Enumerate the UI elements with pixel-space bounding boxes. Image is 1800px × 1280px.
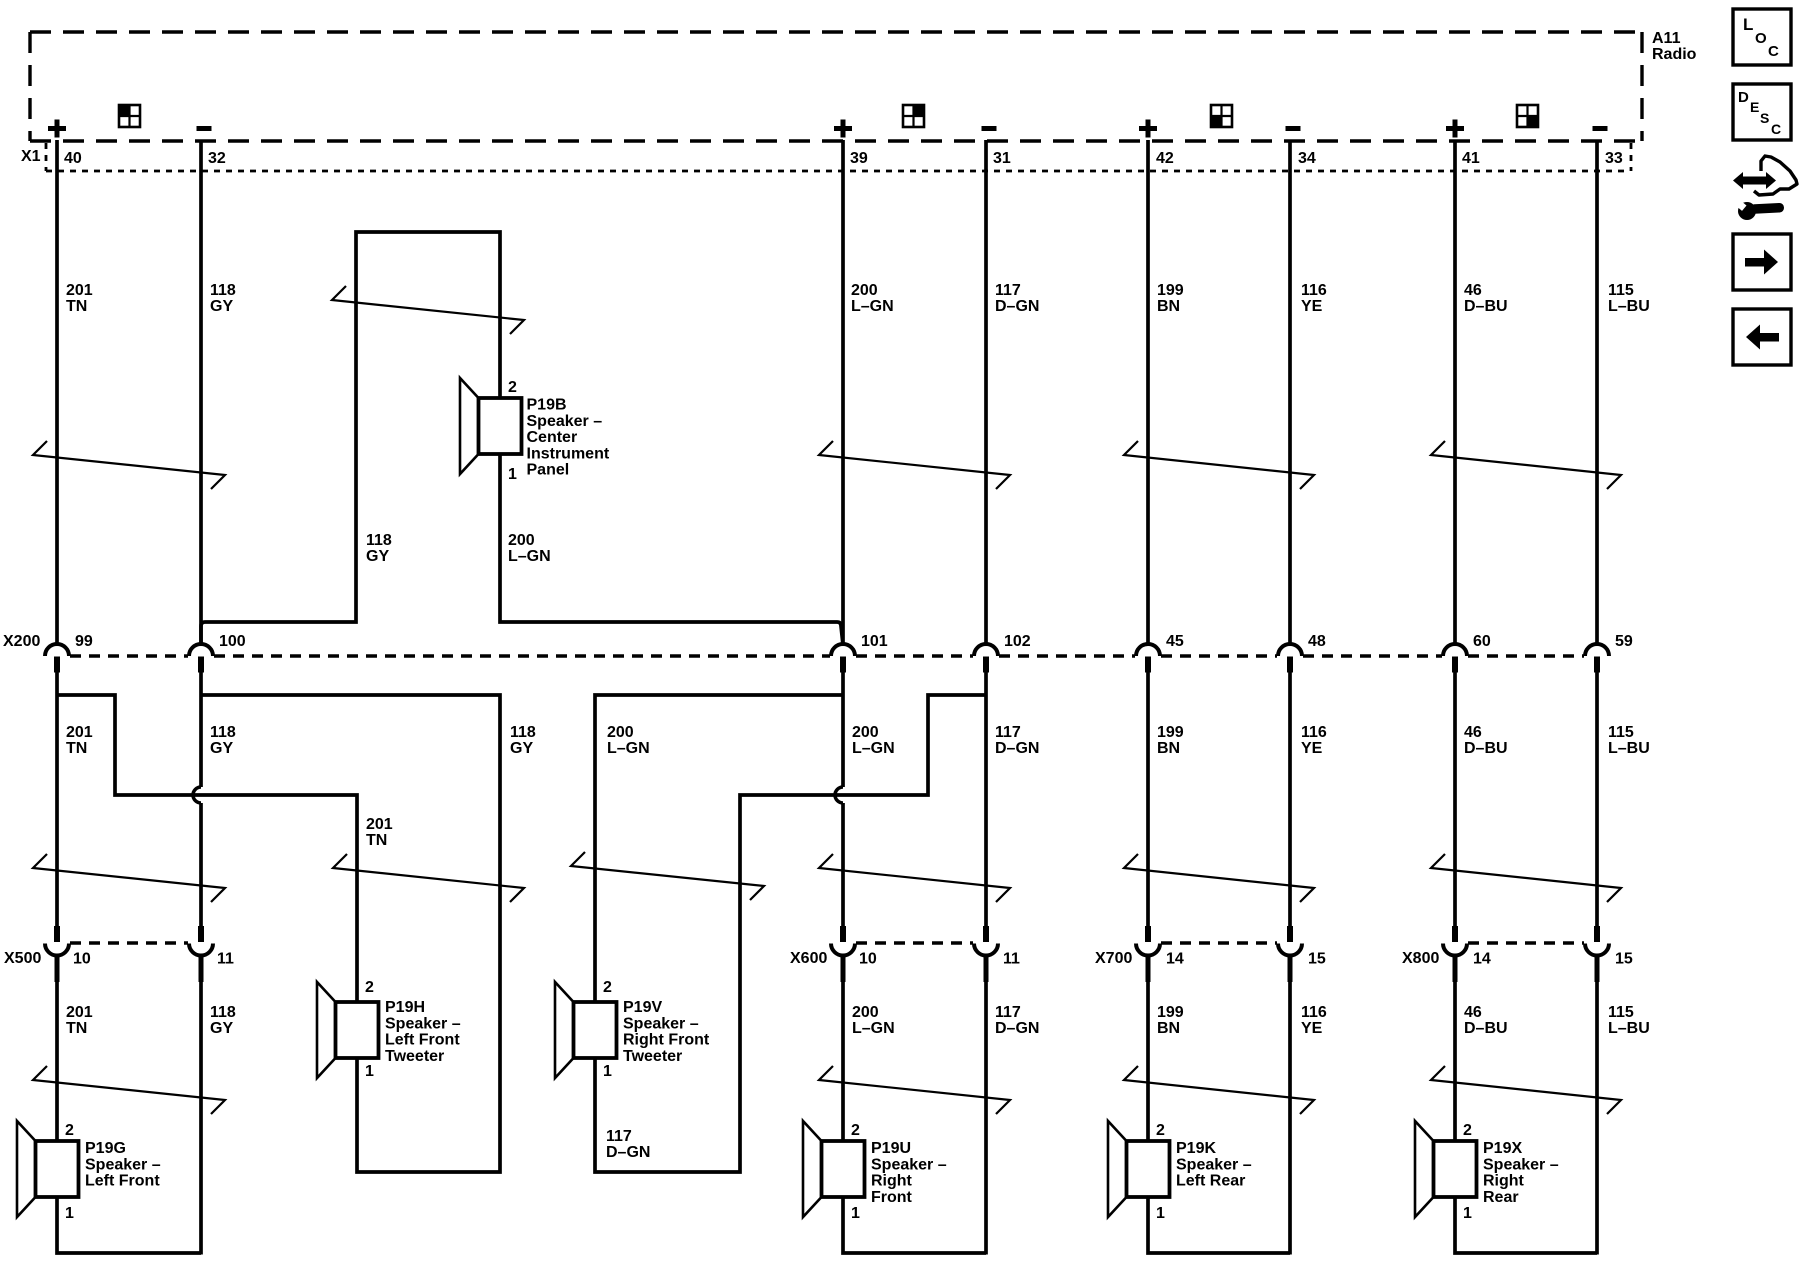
svg-text:Panel: Panel xyxy=(527,462,570,479)
svg-text:116: 116 xyxy=(1301,282,1327,299)
svg-text:GY: GY xyxy=(210,1020,233,1037)
branch wire 200 L-GN to P19V pin 2 xyxy=(595,695,843,1002)
speaker P19V - Right Front Tweeter xyxy=(555,982,574,1078)
svg-text:2: 2 xyxy=(1463,1122,1472,1139)
branch wire 118 GY to P19H pin 1 xyxy=(201,695,500,1172)
twisted pair symbol LR top xyxy=(1124,441,1314,489)
svg-text:33: 33 xyxy=(1605,150,1623,167)
svg-text:118: 118 xyxy=(210,1004,236,1021)
svg-text:X500: X500 xyxy=(4,950,41,967)
P19U pin 1 return wire xyxy=(843,1197,986,1253)
connector X200 dashed line xyxy=(70,654,1584,658)
svg-text:15: 15 xyxy=(1615,951,1633,968)
svg-text:117: 117 xyxy=(995,282,1021,299)
radio A11 dashed outline box xyxy=(30,32,1642,141)
svg-text:1: 1 xyxy=(65,1205,74,1222)
svg-text:L–BU: L–BU xyxy=(1608,298,1650,315)
svg-text:Right: Right xyxy=(1483,1173,1525,1190)
svg-text:E: E xyxy=(1750,99,1759,115)
svg-text:Front: Front xyxy=(871,1189,913,1206)
svg-text:46: 46 xyxy=(1464,282,1482,299)
svg-text:D–GN: D–GN xyxy=(995,1020,1039,1037)
svg-text:Tweeter: Tweeter xyxy=(623,1048,682,1065)
svg-text:X1: X1 xyxy=(21,148,41,165)
sidebar DESC button xyxy=(1733,84,1791,140)
twisted pair symbol RR middle xyxy=(1431,854,1621,902)
wire 118 GY X200-100 to X500-11 (hops branch at y=795) xyxy=(199,672,203,787)
svg-text:D–BU: D–BU xyxy=(1464,298,1508,315)
sidebar diagnostic icon: wrench xyxy=(1738,202,1756,220)
svg-text:BN: BN xyxy=(1157,740,1180,757)
svg-text:Tweeter: Tweeter xyxy=(385,1048,444,1065)
svg-text:D–GN: D–GN xyxy=(995,298,1039,315)
svg-text:46: 46 xyxy=(1464,724,1482,741)
hop arc on 118 GY wire xyxy=(193,787,201,803)
connector X1 band dotted line xyxy=(46,143,1631,171)
twisted pair symbol RR top xyxy=(1431,441,1621,489)
svg-text:32: 32 xyxy=(208,150,226,167)
svg-text:L–BU: L–BU xyxy=(1608,1020,1650,1037)
svg-text:46: 46 xyxy=(1464,1004,1482,1021)
wire 117 D-GN from radio X1 to X200 xyxy=(984,140,988,646)
speaker P19U xyxy=(803,1121,822,1217)
svg-text:102: 102 xyxy=(1004,633,1031,650)
svg-text:TN: TN xyxy=(66,740,87,757)
svg-text:P19G: P19G xyxy=(85,1140,126,1157)
wire 200 L-GN from P19B pin 1 to X200 pin 101 xyxy=(500,454,843,645)
svg-text:200: 200 xyxy=(852,1004,879,1021)
svg-text:X200: X200 xyxy=(3,633,40,650)
svg-text:YE: YE xyxy=(1301,1020,1323,1037)
svg-text:45: 45 xyxy=(1166,633,1184,650)
svg-text:P19X: P19X xyxy=(1483,1140,1522,1157)
svg-text:BN: BN xyxy=(1157,298,1180,315)
twisted pair symbol RR bottom xyxy=(1431,1066,1621,1114)
wire 118 GY from radio X1 to X200 xyxy=(199,140,203,646)
svg-text:200: 200 xyxy=(607,724,634,741)
svg-text:Rear: Rear xyxy=(1483,1189,1519,1206)
svg-text:115: 115 xyxy=(1608,724,1634,741)
svg-text:D–GN: D–GN xyxy=(995,740,1039,757)
twisted pair symbol RF middle xyxy=(819,854,1010,902)
svg-text:Speaker –: Speaker – xyxy=(385,1015,461,1032)
svg-text:115: 115 xyxy=(1608,282,1634,299)
channel quadrant icon LR (bottom-left filled) xyxy=(1211,105,1232,127)
svg-text:S: S xyxy=(1760,110,1769,126)
wire 199 BN from radio X1 to X200 xyxy=(1146,140,1150,646)
X200 pin bumps xyxy=(45,644,69,656)
svg-text:201: 201 xyxy=(66,1004,93,1021)
svg-text:Speaker –: Speaker – xyxy=(871,1156,947,1173)
svg-text:A11: A11 xyxy=(1652,30,1681,47)
svg-text:199: 199 xyxy=(1157,724,1184,741)
svg-text:D–BU: D–BU xyxy=(1464,740,1508,757)
svg-text:14: 14 xyxy=(1473,951,1491,968)
wire 201 TN X500-10 to P19G pin 2 xyxy=(55,955,59,1141)
svg-text:L: L xyxy=(1743,15,1753,34)
connector X500 dashed line xyxy=(70,941,188,945)
svg-text:59: 59 xyxy=(1615,633,1633,650)
svg-text:L–GN: L–GN xyxy=(851,298,894,315)
svg-text:15: 15 xyxy=(1308,951,1326,968)
svg-text:42: 42 xyxy=(1156,150,1174,167)
channel quadrant icon LF (top-left filled) xyxy=(119,105,140,127)
svg-text:X800: X800 xyxy=(1402,950,1439,967)
svg-text:YE: YE xyxy=(1301,740,1323,757)
wire 115 L-BU X800-15 down xyxy=(1595,955,1599,1255)
svg-text:100: 100 xyxy=(219,633,246,650)
svg-text:34: 34 xyxy=(1298,150,1316,167)
wire 199 BN X700-14 to P19K pin 2 xyxy=(1146,955,1150,1141)
svg-text:Speaker –: Speaker – xyxy=(623,1015,699,1032)
svg-text:L–GN: L–GN xyxy=(852,1020,895,1037)
svg-text:TN: TN xyxy=(66,1020,87,1037)
twisted pair symbol LF top xyxy=(33,441,225,489)
svg-text:118: 118 xyxy=(366,532,392,549)
svg-text:41: 41 xyxy=(1462,150,1480,167)
svg-text:1: 1 xyxy=(1463,1205,1472,1222)
svg-text:Speaker –: Speaker – xyxy=(527,413,603,430)
X700 pin bumps xyxy=(1145,926,1151,942)
svg-text:P19K: P19K xyxy=(1176,1140,1216,1157)
svg-text:60: 60 xyxy=(1473,633,1491,650)
svg-text:YE: YE xyxy=(1301,298,1323,315)
wire 199 BN X200-45 to X700-14 xyxy=(1146,672,1150,927)
svg-text:48: 48 xyxy=(1308,633,1326,650)
svg-text:99: 99 xyxy=(75,633,93,650)
svg-text:1: 1 xyxy=(851,1205,860,1222)
svg-text:11: 11 xyxy=(1003,951,1020,968)
svg-text:L–BU: L–BU xyxy=(1608,740,1650,757)
svg-text:117: 117 xyxy=(995,1004,1021,1021)
svg-text:2: 2 xyxy=(603,979,612,996)
twisted pair symbol LF tweeter pair xyxy=(333,854,524,902)
sidebar prev-page button (left arrow) xyxy=(1733,309,1791,365)
channel quadrant icon RR (bottom-right filled) xyxy=(1517,105,1538,127)
svg-text:115: 115 xyxy=(1608,1004,1634,1021)
svg-text:118: 118 xyxy=(510,724,536,741)
svg-text:C: C xyxy=(1768,43,1779,60)
wire 200 L-GN X200-101 to X600-10 (hops branch at y=795) xyxy=(841,672,845,787)
connector X600 dashed line xyxy=(856,941,973,945)
svg-text:O: O xyxy=(1755,30,1767,47)
wire 116 YE X700-15 down xyxy=(1288,955,1292,1255)
svg-text:2: 2 xyxy=(1156,1122,1165,1139)
svg-text:TN: TN xyxy=(66,298,87,315)
svg-text:Right Front: Right Front xyxy=(623,1032,710,1049)
wire 200 L-GN X600-10 to P19U pin 2 xyxy=(841,955,845,1141)
speaker P19G xyxy=(17,1121,36,1217)
connector X800 dashed line xyxy=(1468,941,1584,945)
speaker P19B - Center Instrument Panel xyxy=(460,378,479,474)
wire 117 D-GN X600-11 down xyxy=(984,955,988,1255)
svg-text:P19U: P19U xyxy=(871,1140,911,1157)
svg-text:199: 199 xyxy=(1157,1004,1184,1021)
sidebar LOC button xyxy=(1733,9,1791,65)
svg-text:201: 201 xyxy=(366,816,393,833)
svg-text:40: 40 xyxy=(64,150,82,167)
svg-text:101: 101 xyxy=(861,633,888,650)
svg-text:P19V: P19V xyxy=(623,999,662,1016)
speaker P19K xyxy=(1108,1121,1127,1217)
svg-text:199: 199 xyxy=(1157,282,1184,299)
svg-text:Center: Center xyxy=(527,429,578,446)
svg-text:GY: GY xyxy=(366,548,389,565)
svg-text:14: 14 xyxy=(1166,951,1184,968)
wire 118 GY X500-11 down xyxy=(199,955,203,1255)
svg-text:L–GN: L–GN xyxy=(508,548,551,565)
hop arc on 200 L-GN wire xyxy=(835,787,843,803)
wire 46 D-BU from radio X1 to X200 xyxy=(1453,140,1457,646)
X500 pin bumps xyxy=(54,926,60,942)
X600 pin bumps xyxy=(840,926,846,942)
svg-text:10: 10 xyxy=(859,951,877,968)
X800 pin bumps xyxy=(1452,926,1458,942)
svg-text:Speaker –: Speaker – xyxy=(85,1156,161,1173)
polarity plus/minus marks at radio outputs xyxy=(48,126,66,131)
svg-text:GY: GY xyxy=(210,740,233,757)
P19K pin 1 return wire xyxy=(1148,1197,1290,1253)
wire 117 D-GN X200-102 to X600-11 xyxy=(984,672,988,927)
svg-text:D–BU: D–BU xyxy=(1464,1020,1508,1037)
wire 201 TN X200-99 to X500-10 xyxy=(55,672,59,927)
svg-text:200: 200 xyxy=(508,532,535,549)
branch wire 201 TN to P19H pin 2 xyxy=(57,695,357,1002)
svg-text:117: 117 xyxy=(606,1128,632,1145)
svg-text:X700: X700 xyxy=(1095,950,1132,967)
svg-text:Left Front: Left Front xyxy=(385,1032,460,1049)
speaker P19H - Left Front Tweeter xyxy=(317,982,336,1078)
connector X700 dashed line xyxy=(1161,941,1277,945)
svg-text:118: 118 xyxy=(210,282,236,299)
P19G pin 1 return wire xyxy=(57,1197,201,1253)
wire 116 YE from radio X1 to X200 xyxy=(1288,140,1292,646)
svg-text:2: 2 xyxy=(508,379,517,396)
svg-text:39: 39 xyxy=(850,150,868,167)
svg-text:200: 200 xyxy=(852,724,879,741)
svg-text:Left Rear: Left Rear xyxy=(1176,1173,1245,1190)
twisted pair symbol P19B pair xyxy=(332,286,524,334)
svg-text:2: 2 xyxy=(65,1122,74,1139)
svg-text:31: 31 xyxy=(993,150,1011,167)
wire 46 D-BU X200-60 to X800-14 xyxy=(1453,672,1457,927)
twisted pair symbol LR bottom xyxy=(1124,1066,1314,1114)
svg-text:D–GN: D–GN xyxy=(606,1144,650,1161)
svg-text:TN: TN xyxy=(366,832,387,849)
svg-text:X600: X600 xyxy=(790,950,827,967)
svg-text:BN: BN xyxy=(1157,1020,1180,1037)
svg-text:1: 1 xyxy=(508,466,517,483)
wire 201 TN from radio X1 to X200 xyxy=(55,140,59,646)
svg-text:GY: GY xyxy=(210,298,233,315)
P19X pin 1 return wire xyxy=(1455,1197,1597,1253)
svg-text:D: D xyxy=(1738,89,1749,106)
svg-text:2: 2 xyxy=(851,1122,860,1139)
svg-text:11: 11 xyxy=(217,951,234,968)
svg-text:118: 118 xyxy=(210,724,236,741)
svg-text:C: C xyxy=(1771,121,1781,137)
svg-text:Speaker –: Speaker – xyxy=(1176,1156,1252,1173)
svg-text:P19H: P19H xyxy=(385,999,425,1016)
svg-text:Instrument: Instrument xyxy=(527,445,610,462)
svg-text:200: 200 xyxy=(851,282,878,299)
wire 200 L-GN from radio X1 to X200 xyxy=(841,140,845,646)
svg-text:117: 117 xyxy=(995,724,1021,741)
twisted pair symbol LF middle xyxy=(33,854,225,902)
svg-text:Right: Right xyxy=(871,1173,913,1190)
branch wire 117 D-GN to P19V pin 1 xyxy=(595,695,986,1172)
svg-text:116: 116 xyxy=(1301,724,1327,741)
svg-text:GY: GY xyxy=(510,740,533,757)
svg-text:2: 2 xyxy=(365,979,374,996)
wire 46 D-BU X800-14 to P19X pin 2 xyxy=(1453,955,1457,1141)
twisted pair symbol RF bottom xyxy=(819,1066,1010,1114)
channel quadrant icon RF (top-right filled) xyxy=(903,105,924,127)
svg-text:1: 1 xyxy=(603,1063,612,1080)
svg-text:1: 1 xyxy=(1156,1205,1165,1222)
svg-text:201: 201 xyxy=(66,724,93,741)
twisted pair symbol RF top xyxy=(819,441,1010,489)
twisted pair symbol LR middle xyxy=(1124,854,1314,902)
svg-text:Speaker –: Speaker – xyxy=(1483,1156,1559,1173)
wire 115 L-BU X200-59 to X800-15 xyxy=(1595,672,1599,927)
svg-text:201: 201 xyxy=(66,282,93,299)
svg-text:Left Front: Left Front xyxy=(85,1173,160,1190)
sidebar next-page button (right arrow) xyxy=(1733,234,1791,290)
twisted pair symbol LF bottom xyxy=(33,1066,225,1114)
svg-text:Radio: Radio xyxy=(1652,46,1697,63)
wire 118 GY branch loop to P19B (left/top side) xyxy=(201,232,500,645)
wire 115 L-BU from radio X1 to X200 xyxy=(1595,140,1599,646)
svg-text:L–GN: L–GN xyxy=(607,740,650,757)
svg-text:1: 1 xyxy=(365,1063,374,1080)
svg-text:L–GN: L–GN xyxy=(852,740,895,757)
speaker P19X xyxy=(1415,1121,1434,1217)
svg-text:116: 116 xyxy=(1301,1004,1327,1021)
svg-text:P19B: P19B xyxy=(527,397,567,414)
sidebar diagnostic icon: double arrow xyxy=(1733,172,1776,189)
svg-text:10: 10 xyxy=(73,951,91,968)
wire 116 YE X200-48 to X700-15 xyxy=(1288,672,1292,927)
twisted pair symbol RF tweeter pair xyxy=(571,852,764,900)
sidebar diagnostic icon: outline arrow xyxy=(1754,156,1797,195)
